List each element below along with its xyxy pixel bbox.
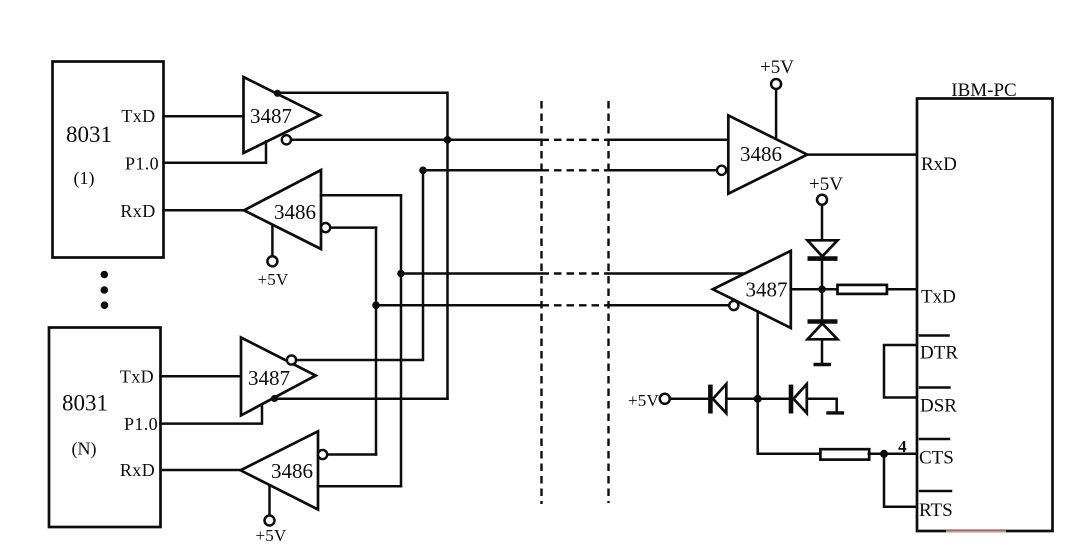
svg-text:+5V: +5V <box>809 174 843 195</box>
resistor R2 (CTS line) <box>820 449 869 459</box>
svg-text:8031: 8031 <box>62 391 108 416</box>
wire U3 non-inverting input to rail C <box>321 194 401 197</box>
driver U7 3487 (PC side) <box>713 251 791 328</box>
wire enable junction down to CTS resistor <box>758 399 821 454</box>
ground symbol (after D4) <box>826 411 844 414</box>
bus line 4 (to U7 bubble) <box>376 304 729 307</box>
wire U3 +5V lead <box>271 225 274 257</box>
MCU U8 8031 (N) box <box>49 328 161 528</box>
svg-text:P1.0: P1.0 <box>125 154 159 174</box>
+5V terminal above D1 <box>809 174 843 205</box>
wire U1.TxD to U2 input <box>164 115 244 118</box>
svg-text:3487: 3487 <box>248 366 290 390</box>
node: U4 Y-output junction dot on bottom slant <box>271 395 278 402</box>
svg-text:TxD: TxD <box>120 367 154 387</box>
wire D3 to D4 through enable junction <box>727 398 790 401</box>
U7 inverting input bubble <box>729 301 738 310</box>
svg-text:(1): (1) <box>74 168 95 189</box>
+5V terminal (diode chain) <box>628 391 670 410</box>
svg-text:CTS: CTS <box>919 448 954 469</box>
diode D3 <box>710 384 726 414</box>
U4 inverting output bubble (top slant) <box>287 355 296 364</box>
svg-text:RxD: RxD <box>120 201 155 221</box>
wire U2 enable to P1.0 <box>164 142 267 163</box>
wire U5 non-inverting input to rail C <box>318 485 401 488</box>
wire DTR-DSR loop <box>884 345 917 398</box>
wire +5V terminal to D3 <box>670 398 712 401</box>
svg-text:RTS: RTS <box>919 500 953 521</box>
svg-text:TxD: TxD <box>121 106 155 126</box>
+5V terminal of U5 <box>256 516 287 546</box>
svg-text:+5V: +5V <box>628 391 659 410</box>
node: bus2 corner dot <box>419 167 427 175</box>
node: rail C / bus3 junction dot <box>397 270 405 278</box>
wire U4 Y output: bottom slant right to rail A <box>272 398 448 401</box>
ground symbol (below D2) <box>814 363 832 366</box>
svg-text:+5V: +5V <box>258 270 289 289</box>
svg-text:3487: 3487 <box>746 278 788 302</box>
U5 inverting input bubble <box>318 450 327 459</box>
U6 inverting input bubble <box>717 166 726 175</box>
svg-text:4: 4 <box>898 437 907 456</box>
node: bus1 junction dot (rail A joins bus1) <box>444 136 452 144</box>
IBM-PC box <box>917 80 1053 531</box>
node: U2 Y-output junction dot on top slant <box>274 90 281 97</box>
wire D2 to ground <box>821 339 824 362</box>
bus line 3 (to U7 input) <box>401 272 745 275</box>
U3 inverting input bubble <box>321 223 330 232</box>
wire rail D: down to U5 bubble line <box>375 228 378 455</box>
svg-text:+5V: +5V <box>256 526 287 545</box>
svg-text:TxD: TxD <box>921 287 956 308</box>
wire U5 bubble to rail D <box>327 453 376 456</box>
driver U2 3487 (top-left) <box>244 77 321 153</box>
svg-text:IBM-PC: IBM-PC <box>951 80 1016 101</box>
wire rail C: down to U5 input <box>400 195 403 486</box>
ellipsis dots between 8031 units <box>101 271 109 309</box>
wire D1 to +5V terminal <box>821 205 824 241</box>
wire U8.RxD from U5 output <box>161 469 241 472</box>
wire CTS junction to PC RTS <box>884 454 917 507</box>
cable dashed line (left) <box>540 101 542 504</box>
wire D4 to ground <box>807 399 837 411</box>
bus line 1 (to U6 input) <box>291 139 728 142</box>
wire U3 bubble to rail D <box>330 226 376 229</box>
svg-text:3486: 3486 <box>274 200 316 224</box>
node: CTS/RTS junction dot <box>880 450 888 458</box>
svg-text:RxD: RxD <box>120 460 155 480</box>
wire U7 enable down to diode junction <box>756 312 759 399</box>
+5V terminal above U6 <box>760 57 794 89</box>
wire U7 output to PC TxD <box>791 288 917 291</box>
wire U6 +5V lead <box>775 89 778 138</box>
svg-text:3486: 3486 <box>740 142 782 166</box>
diode D2 (clamp to ground) <box>808 322 838 340</box>
resistor R1 (TxD series) <box>838 285 887 294</box>
bus line 2 (to U6 bubble) <box>423 169 717 172</box>
node: rail D / bus4 junction dot <box>372 302 380 310</box>
svg-text:3486: 3486 <box>271 459 313 483</box>
node: enable junction dot <box>754 395 762 403</box>
cable dashed line (right) <box>607 101 609 503</box>
U2 inverting output bubble <box>282 135 291 144</box>
wire U2 Y output: top slant right then down to bus1 junction <box>275 93 448 140</box>
svg-text:P1.0: P1.0 <box>124 414 158 434</box>
receiver U3 3486 (top-left) <box>244 170 321 249</box>
svg-text:DSR: DSR <box>920 396 957 417</box>
wire clamp lower lead <box>821 289 824 321</box>
svg-text:DTR: DTR <box>920 343 958 364</box>
wire U4 enable to P1.0 <box>161 404 263 423</box>
MCU U1 8031 (1) box <box>53 62 164 258</box>
driver U4 3487 (bottom-left) <box>241 338 316 416</box>
wire rail A: down from bus1 to U4 Y output line <box>446 140 449 399</box>
wire U6 output to PC RxD <box>807 153 917 156</box>
svg-text:8031: 8031 <box>66 122 112 147</box>
svg-text:(N): (N) <box>72 439 97 460</box>
receiver U5 3486 (bottom-left) <box>241 431 319 509</box>
wire R2 to PC CTS <box>869 453 917 456</box>
svg-text:+5V: +5V <box>760 57 794 78</box>
svg-text:3487: 3487 <box>250 104 292 128</box>
wire clamp upper lead <box>821 259 824 290</box>
svg-text:RxD: RxD <box>921 154 957 175</box>
wire U4 bubble output right then up to bus2 corner <box>296 170 423 360</box>
node: TxD clamp junction dot <box>818 286 826 294</box>
diode D4 <box>791 384 807 414</box>
diode D1 (clamp to +5V) <box>808 240 838 258</box>
wire U5 +5V lead <box>268 485 271 515</box>
receiver U6 3486 (PC side) <box>728 115 807 193</box>
+5V terminal of U3 <box>258 256 289 289</box>
wire U1.RxD from U3 output <box>164 209 245 212</box>
wire U8.TxD to U4 input <box>161 375 242 378</box>
